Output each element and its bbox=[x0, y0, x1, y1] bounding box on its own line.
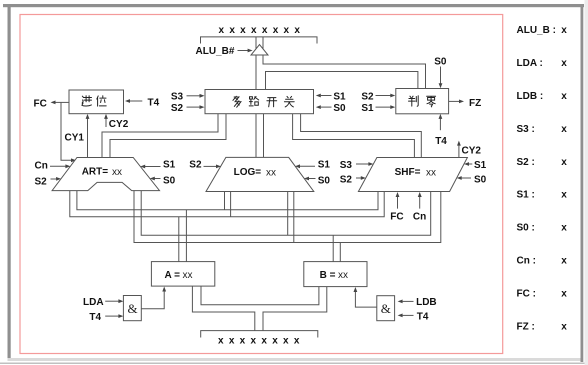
svg-text:S2: S2 bbox=[171, 103, 184, 114]
wire S2 into LOG bbox=[204, 165, 218, 167]
svg-text:x: x bbox=[561, 190, 567, 201]
wire B-bus upper (ART LOG SHF) bbox=[141, 191, 431, 236]
hanzi kai (开) bbox=[267, 98, 277, 107]
svg-text:x: x bbox=[561, 58, 567, 69]
svg-text:ALU_B#: ALU_B# bbox=[196, 46, 235, 57]
svg-text:xx: xx bbox=[338, 270, 348, 281]
wire ALU_B# arrow bbox=[238, 50, 249, 52]
svg-text:S2 :: S2 : bbox=[517, 157, 535, 168]
svg-text:FZ: FZ bbox=[469, 98, 481, 109]
wire multiplexer to zero-detect lower bbox=[266, 72, 418, 90]
svg-text:xx: xx bbox=[183, 270, 193, 281]
wire S2 into multiplexer bbox=[187, 106, 202, 108]
svg-text:x: x bbox=[561, 322, 567, 333]
svg-text:ART=: ART= bbox=[82, 166, 109, 177]
zero-detect box bbox=[396, 89, 449, 114]
svg-text:S0: S0 bbox=[333, 103, 346, 114]
wire T4 into zero-detect bottom bbox=[439, 118, 441, 131]
wire T4 into and gate A bbox=[105, 315, 120, 317]
wire B-bus lower bbox=[134, 191, 441, 243]
svg-text:S2: S2 bbox=[340, 174, 353, 185]
svg-text:x: x bbox=[561, 91, 567, 102]
svg-text:xx: xx bbox=[112, 167, 122, 178]
svg-text:SHF=: SHF= bbox=[395, 167, 421, 178]
svg-text:FC :: FC : bbox=[517, 289, 536, 300]
svg-text:S2: S2 bbox=[189, 159, 202, 170]
hanzi pan (判) bbox=[409, 96, 419, 107]
wire top-bus to zero-detect upper bbox=[263, 37, 426, 89]
svg-text:CY2: CY2 bbox=[109, 119, 129, 130]
svg-text:S0: S0 bbox=[318, 176, 331, 187]
svg-text:S2: S2 bbox=[35, 176, 48, 187]
wire S3 into SHF bbox=[356, 163, 370, 165]
svg-text:Cn: Cn bbox=[413, 212, 426, 223]
svg-text:LDA: LDA bbox=[83, 297, 104, 308]
wire FC into SHF bottom bbox=[397, 196, 399, 209]
wire A to bottom bus lower left bbox=[192, 286, 254, 331]
wire A-bus upper (ART LOG SHF) bbox=[77, 191, 378, 210]
svg-text:T4: T4 bbox=[435, 136, 447, 147]
wire multiplexer to ART inner bbox=[110, 114, 226, 158]
hanzi jin (进) bbox=[82, 96, 92, 106]
hanzi lu (路) bbox=[249, 96, 259, 106]
svg-text:T4: T4 bbox=[417, 311, 429, 322]
ALU unit SHF bbox=[358, 158, 467, 192]
svg-text:T4: T4 bbox=[148, 97, 160, 108]
wire LDA into and gate bbox=[105, 300, 120, 302]
wire B to bottom bus lower right bbox=[263, 287, 327, 331]
wire Cn into SHF bottom bbox=[419, 196, 421, 209]
svg-text:A =: A = bbox=[165, 270, 181, 281]
svg-text:S3: S3 bbox=[171, 91, 184, 102]
svg-text:FC: FC bbox=[34, 99, 47, 110]
wire S2 into zero-detect bbox=[376, 95, 393, 97]
wire CY2 from SHF bbox=[458, 144, 460, 157]
hanzi duo (多) bbox=[233, 96, 241, 107]
wire A-bus lower bbox=[70, 191, 384, 217]
wire LDB into and gate bbox=[398, 300, 403, 304]
ALU unit ART bbox=[52, 158, 159, 191]
hanzi guan (关) bbox=[284, 96, 294, 107]
svg-text:S0: S0 bbox=[434, 56, 447, 67]
svg-text:Cn: Cn bbox=[35, 161, 48, 172]
register B box bbox=[304, 262, 367, 287]
multiplexer box bbox=[205, 90, 314, 114]
wire LOG right legs bbox=[288, 192, 294, 243]
svg-text:S3: S3 bbox=[340, 160, 353, 171]
svg-text:x: x bbox=[561, 256, 567, 267]
wire A B to bottom bus upper bbox=[201, 286, 319, 305]
wire B register to B-bus bbox=[333, 235, 340, 261]
svg-text:LDB :: LDB : bbox=[517, 91, 544, 102]
svg-text:Cn :: Cn : bbox=[517, 256, 536, 267]
register A box bbox=[151, 262, 214, 287]
bottom bus node bbox=[201, 331, 318, 338]
wire S0 into zero-detect top bbox=[440, 67, 442, 85]
wire multiplexer to LOG pair bbox=[256, 114, 264, 158]
svg-text:S0: S0 bbox=[163, 176, 176, 187]
wire CY1 ART to carry bbox=[87, 118, 89, 158]
wire T4 into carry bbox=[129, 100, 143, 102]
carry register box bbox=[69, 90, 124, 114]
wire CY2 stub into carry bbox=[105, 118, 107, 128]
svg-text:FZ :: FZ : bbox=[517, 322, 535, 333]
hanzi ling (零) bbox=[427, 96, 436, 107]
tri-state buffer ALU_B# bbox=[251, 45, 268, 56]
wire Cn into ART bbox=[50, 165, 67, 167]
svg-text:x: x bbox=[561, 25, 567, 36]
wire multiplexer to SHF outer bbox=[301, 114, 422, 158]
wire S0 into LOG bbox=[307, 178, 315, 180]
svg-text:CY2: CY2 bbox=[462, 145, 482, 156]
wire S2 into SHF bbox=[356, 177, 363, 179]
wire S0 into SHF bbox=[460, 177, 471, 179]
svg-text:S1: S1 bbox=[474, 160, 487, 171]
wire and gate B to register B bbox=[355, 291, 376, 308]
wire T4 into and gate B bbox=[398, 314, 403, 318]
top bus node bbox=[201, 37, 318, 44]
wire LOG left legs bbox=[225, 192, 231, 217]
wire multiplexer to ART outer bbox=[102, 114, 218, 158]
wire S1 into multiplexer right bbox=[316, 94, 321, 98]
wire S1 into SHF bbox=[467, 163, 472, 165]
wire S1 into zero-detect bbox=[376, 106, 393, 108]
svg-text:x x x x x x x x: x x x x x x x x bbox=[219, 25, 302, 36]
wire A register to A-bus bbox=[179, 210, 187, 262]
and gate A bbox=[123, 296, 141, 321]
hanzi wei (位) bbox=[97, 96, 106, 106]
wire multiplexer to SHF inner bbox=[293, 114, 415, 158]
svg-text:xx: xx bbox=[266, 167, 276, 178]
svg-text:x: x bbox=[561, 157, 567, 168]
wire and gate A to register A bbox=[141, 290, 164, 309]
wire FZ output bbox=[449, 100, 461, 102]
svg-text:x: x bbox=[561, 124, 567, 135]
svg-text:xx: xx bbox=[426, 168, 436, 179]
svg-text:S1: S1 bbox=[318, 159, 331, 170]
svg-text:S1: S1 bbox=[361, 103, 374, 114]
svg-text:&: & bbox=[381, 301, 391, 316]
wire S0 into ART bbox=[153, 178, 161, 180]
svg-text:S1: S1 bbox=[163, 159, 176, 170]
svg-text:S1 :: S1 : bbox=[517, 190, 535, 201]
wire S0 into multiplexer right bbox=[316, 105, 321, 109]
ALU unit LOG bbox=[206, 157, 314, 191]
svg-text:S1: S1 bbox=[333, 91, 346, 102]
wire S3 into multiplexer bbox=[187, 95, 202, 97]
svg-text:S0 :: S0 : bbox=[517, 223, 535, 234]
svg-text:S3 :: S3 : bbox=[517, 124, 535, 135]
wire FC output bbox=[54, 101, 69, 103]
svg-text:FC: FC bbox=[390, 212, 403, 223]
svg-text:CY1: CY1 bbox=[65, 132, 85, 143]
wire S2 into ART bbox=[51, 178, 59, 180]
svg-text:LDA :: LDA : bbox=[517, 58, 543, 69]
svg-text:x: x bbox=[561, 289, 567, 300]
svg-text:S2: S2 bbox=[361, 91, 374, 102]
svg-text:x: x bbox=[561, 223, 567, 234]
svg-text:T4: T4 bbox=[89, 312, 101, 323]
svg-text:B =: B = bbox=[320, 270, 336, 281]
wire S1 into LOG bbox=[298, 165, 315, 167]
svg-text:LOG=: LOG= bbox=[234, 167, 262, 178]
svg-text:S0: S0 bbox=[474, 174, 487, 185]
svg-text:LDB: LDB bbox=[416, 297, 437, 308]
svg-text:ALU_B :: ALU_B : bbox=[517, 25, 556, 36]
svg-text:&: & bbox=[128, 301, 138, 316]
wire S1 into ART bbox=[144, 166, 161, 168]
and gate B bbox=[377, 296, 395, 321]
wire top-bus to multiplexer (left line) bbox=[255, 37, 257, 90]
wire FC feedback to ART bbox=[61, 102, 73, 160]
svg-text:x x x x x x x x: x x x x x x x x bbox=[218, 336, 301, 347]
